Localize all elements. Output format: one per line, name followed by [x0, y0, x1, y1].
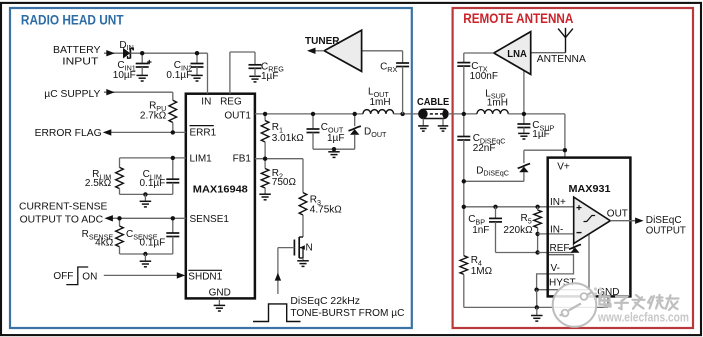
svg-text:V+: V+: [557, 161, 570, 172]
svg-text:1nF: 1nF: [472, 225, 489, 236]
svg-text:www.elecfans.com: www.elecfans.com: [597, 309, 689, 324]
svg-text:LNA: LNA: [507, 49, 527, 60]
svg-text:RADIO HEAD UNT: RADIO HEAD UNT: [21, 13, 124, 28]
svg-text:1mH: 1mH: [370, 97, 391, 108]
svg-text:V-: V-: [551, 263, 560, 274]
svg-text:ERR1: ERR1: [190, 127, 217, 138]
svg-text:SENSE1: SENSE1: [190, 214, 230, 225]
svg-text:OUTPUT: OUTPUT: [646, 226, 686, 237]
svg-text:ERROR FLAG: ERROR FLAG: [35, 128, 102, 139]
svg-text:FB1: FB1: [233, 153, 252, 164]
svg-text:0.1µF: 0.1µF: [140, 238, 166, 249]
svg-text:1µF: 1µF: [261, 71, 278, 82]
svg-text:1µF: 1µF: [327, 133, 344, 144]
svg-text:CABLE: CABLE: [417, 97, 449, 108]
svg-text:1µF: 1µF: [532, 129, 549, 140]
svg-text:OUTPUT TO ADC: OUTPUT TO ADC: [20, 215, 104, 226]
svg-text:220kΩ: 220kΩ: [503, 225, 533, 236]
svg-text:2.7kΩ: 2.7kΩ: [140, 111, 167, 122]
svg-text:0.1µF: 0.1µF: [140, 178, 166, 189]
svg-text:µC SUPPLY: µC SUPPLY: [44, 89, 100, 100]
svg-text:ON: ON: [82, 271, 97, 282]
svg-text:ANTENNA: ANTENNA: [537, 54, 586, 65]
svg-text:10µF: 10µF: [113, 70, 136, 81]
svg-text:4kΩ: 4kΩ: [95, 238, 114, 249]
svg-text:CURRENT-SENSE: CURRENT-SENSE: [19, 201, 108, 212]
svg-text:MAX16948: MAX16948: [193, 183, 248, 195]
svg-text:1mH: 1mH: [487, 97, 508, 108]
svg-text:TONE-BURST FROM µC: TONE-BURST FROM µC: [290, 308, 404, 319]
svg-text:INPUT: INPUT: [62, 56, 98, 67]
svg-text:REG: REG: [220, 96, 242, 107]
svg-text:BATTERY: BATTERY: [53, 45, 101, 56]
svg-text:TUNER: TUNER: [305, 36, 340, 47]
svg-text:3.01kΩ: 3.01kΩ: [272, 133, 304, 144]
svg-text:IN: IN: [201, 96, 211, 107]
svg-text:REMOTE ANTENNA: REMOTE ANTENNA: [463, 11, 573, 26]
svg-text:SHDN1: SHDN1: [188, 271, 222, 282]
svg-text:N: N: [306, 243, 313, 254]
svg-text:REF: REF: [550, 243, 570, 254]
svg-text:DiSEqC: DiSEqC: [646, 215, 682, 226]
svg-text:DiSEqC 22kHz: DiSEqC 22kHz: [290, 296, 360, 307]
svg-text:4.75kΩ: 4.75kΩ: [310, 205, 342, 216]
svg-text:MAX931: MAX931: [569, 183, 611, 195]
svg-text:22nF: 22nF: [473, 143, 496, 154]
svg-text:IN-: IN-: [550, 225, 563, 236]
svg-text:1MΩ: 1MΩ: [471, 266, 493, 277]
svg-text:GND: GND: [209, 287, 231, 298]
svg-text:100nF: 100nF: [470, 71, 498, 82]
svg-text:750Ω: 750Ω: [272, 177, 297, 188]
svg-text:OUT1: OUT1: [224, 110, 251, 121]
svg-text:2.5kΩ: 2.5kΩ: [85, 178, 112, 189]
svg-text:IN+: IN+: [550, 197, 566, 208]
svg-text:OUT: OUT: [607, 208, 628, 219]
svg-text:LIM1: LIM1: [190, 153, 213, 164]
svg-text:OFF: OFF: [53, 271, 73, 282]
svg-text:0.1µF: 0.1µF: [166, 70, 192, 81]
